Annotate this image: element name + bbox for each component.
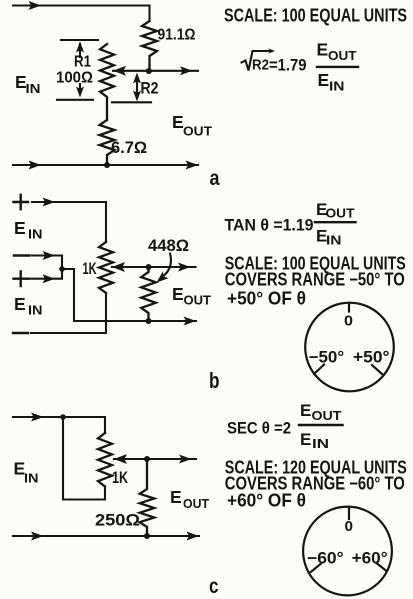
svg-text:R2: R2 (141, 80, 159, 98)
junction dot: wiper / 250Ω top (circuit c) (144, 456, 150, 462)
svg-text:R1: R1 (74, 54, 91, 71)
annotation R1 up arrow (79, 44, 81, 57)
annotation R1 span top bar (61, 39, 98, 41)
svg-text:OUT: OUT (184, 293, 212, 308)
svg-text:E: E (172, 112, 184, 132)
wire: circuit b middle − input lead (32, 256, 63, 267)
svg-text:a: a (210, 167, 220, 190)
svg-text:c: c (209, 575, 219, 598)
svg-text:IN: IN (26, 81, 41, 96)
annotation R1 down arrow (79, 84, 81, 94)
dial c lower-right tick (376, 563, 386, 571)
svg-text:R2: R2 (252, 57, 269, 74)
wire: junction stub to output rail drop (circuit b) (62, 269, 74, 321)
svg-text:IN: IN (28, 303, 43, 318)
minus sign: bottom − terminal (circuit b) (13, 332, 28, 334)
formula fraction c: bar (299, 424, 343, 426)
svg-text:1K: 1K (112, 468, 129, 487)
wire: circuit c wiper output line with arrows (114, 458, 196, 460)
junction dot: 448Ω bottom / output rail (circuit b) (146, 318, 152, 324)
dial c lower-left tick (311, 564, 321, 572)
svg-text:1K: 1K (83, 259, 97, 278)
svg-text:91.1Ω: 91.1Ω (158, 27, 196, 44)
dial c top tick (348, 507, 350, 519)
svg-text:SEC θ =2: SEC θ =2 (227, 420, 291, 438)
svg-text:−50°: −50° (309, 349, 345, 367)
svg-text:SCALE: 100 EQUAL UNITS: SCALE: 100 EQUAL UNITS (224, 6, 407, 26)
svg-text:E: E (318, 70, 330, 90)
wire: circuit a top input rail (13, 6, 150, 22)
plus sign: lower + input (circuit b) (14, 272, 29, 287)
svg-text:448Ω: 448Ω (148, 237, 189, 255)
junction dot: 250Ω bottom / bottom rail (circuit c) (144, 533, 150, 539)
dial b top tick (348, 303, 350, 312)
svg-text:TAN θ =1.19: TAN θ =1.19 (225, 217, 314, 235)
wire: circuit b lower + input lead (30, 272, 62, 279)
wire: circuit a wiper output line with arrows (113, 70, 198, 72)
resistor 250Ω (circuit c) (140, 459, 155, 536)
resistor 91.1Ω (circuit a) (142, 21, 157, 71)
wire: circuit c bottom rail (13, 535, 199, 537)
svg-text:IN: IN (312, 436, 329, 451)
resistor 6.7Ω (circuit a) (100, 120, 115, 165)
junction dot: 91.1Ω / wiper node (circuit a) (146, 68, 152, 74)
potentiometer 1K (circuit c) (98, 433, 112, 487)
wire: circuit c left shorting loop (63, 417, 105, 500)
wire: circuit a bottom rail (13, 164, 198, 166)
annotation R1 span bottom bar (57, 99, 93, 101)
svg-text:100Ω: 100Ω (56, 70, 93, 87)
svg-text:OUT: OUT (328, 48, 357, 63)
formula sqrt(R2) radical sign with arrowed vinculum (242, 51, 272, 71)
wire: circuit b upper + input lead to pot top (32, 202, 106, 242)
svg-text:E: E (14, 218, 26, 238)
junction dot: 6.7Ω to bottom rail (circuit a) (104, 162, 110, 168)
svg-text:E: E (170, 487, 182, 507)
svg-text:+50°: +50° (353, 349, 390, 367)
svg-text:+50° OF θ: +50° OF θ (227, 289, 306, 309)
wire: circuit b wiper output line with arrows (112, 266, 196, 268)
dial circle (section b) (305, 303, 394, 392)
minus sign: middle − input (circuit b) (14, 254, 29, 256)
annotation R2 bottom reference bar (112, 101, 151, 103)
wire: circuit c top input rail (13, 417, 105, 433)
svg-text:+60° OF θ: +60° OF θ (227, 491, 306, 511)
junction dot: wiper / 448Ω top (circuit b) (146, 264, 152, 270)
svg-text:OUT: OUT (183, 496, 209, 511)
junction dot: top rail / left branch (circuit c) (60, 414, 66, 420)
svg-text:IN: IN (326, 233, 342, 248)
svg-text:b: b (209, 368, 220, 393)
svg-text:E: E (300, 430, 311, 449)
svg-text:COVERS RANGE −50° TO: COVERS RANGE −50° TO (225, 270, 405, 290)
svg-text:=1.79: =1.79 (269, 57, 307, 75)
wire: pot bottom return to − lead (circuit b) (31, 293, 106, 333)
dial b lower-right tick (372, 365, 382, 374)
potentiometer R1 100Ω (circuit a) (100, 44, 114, 120)
svg-text:−60°: −60° (307, 549, 344, 567)
annotation: curved arrow from 448Ω label to resistor (164, 254, 171, 276)
potentiometer 1K (circuit b) (99, 242, 113, 293)
dial circle (section c) (303, 507, 392, 596)
svg-text:0: 0 (344, 313, 353, 329)
svg-text:250Ω: 250Ω (95, 511, 140, 530)
wire: circuit b bottom output rail (74, 320, 196, 322)
svg-text:IN: IN (24, 471, 39, 486)
svg-text:+60°: +60° (352, 549, 388, 567)
svg-text:E: E (14, 294, 26, 314)
svg-text:IN: IN (329, 79, 345, 94)
svg-text:E: E (317, 40, 329, 60)
dial b lower-left tick (314, 365, 324, 374)
plus sign: upper + input (circuit b) (14, 195, 29, 209)
svg-text:E: E (300, 401, 311, 420)
resistor 448Ω (circuit b) (141, 267, 156, 321)
svg-text:IN: IN (28, 227, 43, 242)
svg-text:E: E (172, 284, 184, 304)
formula fraction b: bar (315, 221, 356, 223)
formula fraction a: bar (317, 66, 358, 68)
svg-text:OUT: OUT (312, 408, 342, 423)
annotation R2 double arrow (136, 76, 138, 98)
svg-text:OUT: OUT (183, 124, 212, 139)
junction dot: +/− inputs common node (circuit b) (59, 266, 65, 272)
svg-text:OUT: OUT (326, 206, 355, 221)
svg-text:0: 0 (345, 519, 354, 535)
svg-text:6.7Ω: 6.7Ω (111, 139, 147, 157)
